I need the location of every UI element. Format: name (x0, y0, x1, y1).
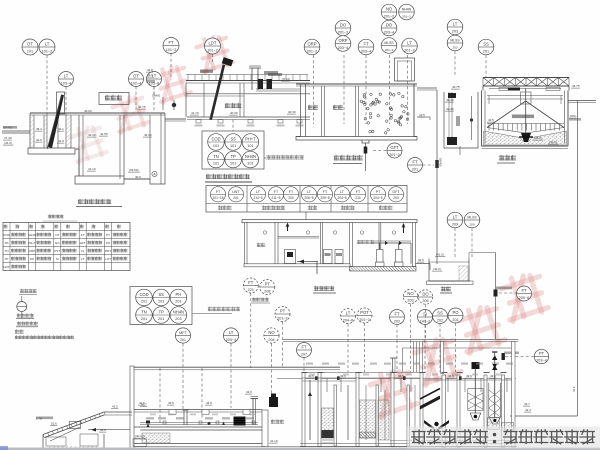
svg-text:205~6: 205~6 (519, 296, 530, 300)
svg-text:NH4N: NH4N (28, 233, 36, 237)
svg-text:201~16: 201~16 (212, 196, 223, 200)
handrail post (229, 75, 231, 81)
svg-text:WFT: WFT (105, 249, 112, 253)
handrail post (201, 75, 203, 81)
wire (283, 341, 519, 343)
instrument signal line (65, 87, 67, 116)
svg-text:206~5: 206~5 (304, 196, 313, 200)
sludge pipe down (365, 143, 367, 171)
instrument bubble DO 201~2 (335, 20, 351, 36)
svg-text:PO: PO (106, 241, 111, 245)
screw conveyor dark band (209, 64, 225, 120)
wire (296, 85, 417, 87)
instrument bubble LDT 101~2 (205, 38, 221, 54)
basin floor 2 (124, 178, 150, 180)
instrument bubble PT 208 (260, 280, 275, 295)
svg-text:NO: NO (407, 291, 414, 296)
handrail post (187, 75, 189, 81)
box (398, 61, 412, 81)
svg-text:SS: SS (158, 292, 164, 297)
svg-text:40.30: 40.30 (288, 110, 296, 114)
leader from gallery (232, 120, 234, 132)
instrument signal line (499, 292, 518, 294)
tank top inner (30, 114, 165, 116)
instrument signal line (153, 87, 155, 96)
svg-text:PT: PT (376, 190, 381, 194)
wire (564, 91, 566, 144)
label 加药NaClO (504, 352, 519, 355)
instrument bubble MFT 201 (175, 328, 190, 343)
legend table (3, 223, 130, 271)
wire (501, 372, 507, 374)
instrument bubble SI 141~2 (418, 310, 433, 325)
instrument bubble LT 103~4 (59, 72, 74, 87)
instrument bubble LT 201~2 (402, 38, 418, 54)
tank base slab (427, 281, 474, 285)
svg-text:208: 208 (264, 289, 270, 293)
table bottom label (218, 206, 231, 210)
wire (302, 380, 356, 382)
wire (430, 280, 470, 282)
svg-text:FT: FT (394, 312, 400, 317)
svg-text:FT: FT (539, 351, 545, 356)
wire (468, 253, 470, 259)
inclined screen (dark) (48, 95, 64, 148)
svg-text:203~4: 203~4 (384, 30, 395, 34)
wire (183, 410, 185, 425)
svg-text:46.75: 46.75 (138, 105, 146, 109)
table col divider (246, 186, 248, 213)
svg-text:201: 201 (158, 317, 164, 321)
table bottom label (262, 206, 285, 210)
svg-text:40.6: 40.6 (135, 175, 141, 179)
instrument bubble GFT 201~2 (387, 143, 402, 158)
box (46, 437, 66, 446)
svg-text:45.4: 45.4 (36, 127, 42, 131)
instrument signal line (343, 55, 345, 124)
handrail post (278, 75, 280, 81)
instrument signal line (182, 344, 184, 411)
box (499, 88, 508, 91)
instrument signal line (423, 164, 435, 166)
instrument signal line (364, 323, 366, 372)
wire (347, 385, 349, 440)
svg-text:52.6: 52.6 (100, 428, 106, 432)
svg-text:LT: LT (453, 22, 458, 27)
wire (104, 414, 132, 416)
title text (206, 174, 250, 179)
svg-text:LDT: LDT (209, 41, 217, 46)
label 就地仪表 (17, 314, 34, 318)
wire (140, 422, 258, 424)
instrument bubble LT 204~6 (341, 309, 356, 324)
screen hatch (47, 94, 62, 149)
svg-text:203: 203 (452, 29, 458, 33)
svg-text:46.75: 46.75 (572, 84, 580, 88)
instrument signal line (250, 293, 252, 368)
sludge stipple zone (484, 131, 567, 145)
wire (560, 96, 562, 105)
wire (488, 96, 490, 105)
rake teeth (489, 124, 560, 131)
handrail post (236, 75, 238, 81)
instrument bubble FT 207 (297, 343, 312, 358)
wire (251, 302, 270, 304)
svg-text:42.5: 42.5 (139, 401, 145, 405)
basin floor (187, 116, 310, 118)
wire (268, 446, 302, 448)
svg-text:42.5: 42.5 (419, 113, 425, 117)
wire (16, 326, 38, 328)
svg-text:CL: CL (81, 249, 85, 253)
riser (480, 378, 482, 392)
instrument signal line (347, 324, 349, 373)
wire (297, 261, 318, 263)
wire (249, 67, 261, 69)
instrument bubble MLSS 201~2 (381, 38, 397, 54)
handrail post (299, 75, 301, 81)
box (70, 422, 81, 429)
stippled column cell (378, 400, 389, 440)
wire (484, 91, 486, 144)
svg-text:203: 203 (452, 45, 457, 49)
wire (356, 372, 362, 374)
svg-text:PH+T: PH+T (245, 136, 256, 141)
wire (278, 236, 319, 238)
svg-text:47.10: 47.10 (282, 77, 290, 81)
svg-text:43.5: 43.5 (206, 401, 212, 405)
svg-text:204: 204 (268, 338, 274, 342)
svg-text:203~4: 203~4 (338, 46, 349, 50)
tank wall (429, 259, 469, 282)
table bottom label (308, 206, 317, 210)
svg-text:43.9: 43.9 (572, 386, 576, 392)
wire (417, 87, 437, 89)
svg-text:FT: FT (81, 233, 85, 237)
label 提升泵房 (264, 71, 278, 74)
wire (487, 98, 563, 100)
wire (392, 358, 394, 373)
instrument signal line (159, 368, 161, 425)
box (335, 250, 343, 264)
instrument signal line (439, 324, 441, 373)
svg-text:200: 200 (288, 196, 294, 200)
wire (567, 91, 569, 147)
svg-text:DO: DO (30, 257, 35, 261)
box (468, 389, 483, 411)
svg-text:SS: SS (230, 136, 236, 141)
wire (487, 128, 526, 134)
wire (410, 243, 412, 264)
walls of advanced treatment tanks (302, 373, 305, 447)
svg-text:DO: DO (422, 292, 429, 297)
lamella plates dark (420, 396, 440, 410)
svg-text:43.7: 43.7 (524, 402, 530, 406)
svg-text:210: 210 (355, 196, 361, 200)
instrument bubble DO 203~4 (381, 20, 397, 36)
instrument bubble DO 205 (418, 290, 432, 304)
wire (134, 409, 262, 411)
svg-text:(DN): (DN) (570, 114, 576, 118)
svg-text:203~4: 203~4 (536, 359, 547, 363)
wire (140, 424, 258, 426)
grit tank wall (57, 115, 59, 148)
tank top edge (30, 112, 165, 114)
wire (300, 443, 517, 445)
wire (305, 84, 307, 137)
wire (165, 120, 186, 122)
wire (88, 429, 130, 431)
svg-text:42.5: 42.5 (418, 258, 424, 262)
svg-text:NO: NO (268, 330, 275, 335)
label 厌氧 (308, 105, 318, 110)
AAO floor (296, 136, 417, 138)
center shaft (525, 88, 527, 136)
ramp rungs (43, 412, 105, 438)
svg-text:101~2: 101~2 (42, 50, 53, 54)
instrument bubble SS 202 (433, 309, 448, 324)
svg-text:SI: SI (423, 312, 427, 317)
wire (482, 86, 484, 91)
label 中心传动刮泥机 (512, 115, 534, 119)
svg-text:LT: LT (81, 257, 84, 261)
instrument signal line (135, 87, 137, 114)
svg-text:42.4: 42.4 (525, 408, 531, 412)
riser (464, 378, 466, 392)
svg-text:41.10: 41.10 (270, 439, 278, 443)
instrument bubble MLSS 209 (464, 212, 480, 228)
wire (186, 93, 310, 95)
svg-text:205: 205 (422, 299, 428, 303)
svg-text:201~2: 201~2 (359, 318, 370, 322)
svg-text:46.75: 46.75 (452, 85, 460, 89)
svg-text:43.5: 43.5 (168, 401, 174, 405)
wire (140, 429, 262, 431)
title underline (440, 292, 452, 294)
outline (362, 140, 369, 143)
svg-text:TP: TP (5, 257, 9, 261)
svg-text:SS: SS (437, 311, 443, 316)
feed channel wall (444, 92, 478, 148)
svg-text:203: 203 (407, 299, 413, 303)
svg-text:TN: TN (5, 249, 9, 253)
svg-text:LT: LT (45, 42, 50, 47)
wire (186, 80, 310, 82)
instrument bubble SS 201 (478, 39, 494, 55)
svg-text:LT: LT (407, 41, 412, 46)
handrail post (208, 75, 210, 81)
wall (119, 115, 121, 179)
wire (422, 342, 424, 373)
title underline (205, 181, 252, 183)
box (324, 250, 333, 264)
wire (471, 96, 473, 140)
wall (82, 115, 84, 176)
svg-text:NH4N: NH4N (402, 8, 412, 12)
label 回流泵房 vertical (456, 116, 460, 126)
svg-text:52.6: 52.6 (51, 422, 57, 426)
instrument signal line (410, 304, 412, 372)
label 提升泵 (268, 73, 282, 76)
wire (305, 212, 307, 220)
svg-text:102~4: 102~4 (131, 81, 142, 85)
svg-text:DO: DO (386, 23, 393, 28)
box (521, 92, 532, 104)
box (395, 58, 415, 81)
grit tank wall (33, 115, 35, 148)
leader (264, 157, 266, 159)
svg-text:ORP: ORP (338, 38, 347, 43)
wire (489, 88, 561, 90)
wire (481, 91, 483, 147)
wire (283, 338, 519, 340)
wire (133, 366, 340, 368)
watermark 1 (top-left, light red diagonal) (68, 123, 109, 164)
svg-text:221: 221 (248, 288, 254, 292)
wire (257, 68, 259, 90)
legend table title (48, 215, 63, 219)
svg-text:(38.6): (38.6) (534, 136, 542, 140)
wire (394, 358, 396, 373)
wire (487, 95, 563, 97)
svg-text:OT: OT (55, 233, 59, 237)
svg-text:SS: SS (4, 241, 8, 245)
title underline (497, 162, 515, 164)
svg-text:42.5: 42.5 (488, 118, 494, 122)
svg-text:SI: SI (56, 257, 59, 261)
svg-text:204~6: 204~6 (343, 318, 354, 322)
instrument bubble LT 203 (447, 19, 463, 35)
small valves on pipes (315, 376, 318, 380)
svg-text:201: 201 (141, 300, 147, 304)
instrument bubble ORP 203~4 (335, 36, 351, 52)
box (546, 88, 560, 91)
svg-text:201~2: 201~2 (402, 14, 411, 18)
bottom scraper dark V (424, 420, 449, 432)
wire (251, 68, 253, 90)
wire (495, 253, 497, 340)
svg-text:PH+T: PH+T (28, 241, 36, 245)
svg-text:41.70: 41.70 (191, 111, 199, 115)
table col divider (330, 186, 332, 213)
svg-text:FT: FT (363, 42, 369, 47)
instrument signal line (373, 150, 387, 152)
title underline (76, 206, 122, 208)
wire (134, 426, 262, 428)
svg-text:(40.0): (40.0) (549, 140, 557, 144)
wire (568, 100, 596, 102)
wire (403, 347, 513, 349)
svg-text:TN: TN (141, 309, 147, 314)
filter bed bottom hatch (360, 432, 376, 438)
wire (243, 83, 245, 117)
instrument bubble MLSS 203 (447, 35, 463, 51)
svg-text:ORP: ORP (307, 42, 316, 47)
instrument bubble FT 203~4 (358, 39, 374, 55)
svg-text:141~2: 141~2 (420, 319, 431, 323)
svg-text:103~4: 103~4 (61, 81, 72, 85)
svg-text:203: 203 (175, 317, 181, 321)
wire (457, 372, 463, 374)
instrument bubble OT 102~4 (129, 72, 144, 87)
instrument signal line (365, 55, 367, 124)
instrument bubble FT 101~2 (163, 38, 179, 54)
svg-text:201~2: 201~2 (307, 49, 318, 53)
center sludge hopper dark (521, 133, 531, 142)
instrument bubble FT 205~6 (517, 286, 532, 301)
wire (416, 263, 431, 265)
svg-text:DN400: DN400 (439, 158, 443, 167)
svg-text:101~2: 101~2 (207, 49, 218, 53)
svg-text:201: 201 (180, 338, 186, 342)
handrail post (250, 75, 252, 81)
svg-text:42.9: 42.9 (36, 138, 42, 142)
svg-text:PT: PT (106, 233, 110, 237)
box (133, 439, 147, 447)
small pump left (147, 424, 150, 428)
svg-text:201: 201 (141, 317, 147, 321)
wire (185, 83, 187, 117)
instrument signal line (485, 55, 487, 77)
aeration bubbles dots (360, 92, 409, 134)
tank outlet pipe (469, 252, 496, 254)
caption backdrop (407, 427, 600, 449)
wire (162, 97, 164, 110)
vent arrows (287, 224, 289, 231)
wire (448, 92, 450, 145)
truss top chord (483, 77, 569, 79)
wire (419, 342, 421, 373)
wire (183, 409, 189, 411)
wire (384, 390, 386, 440)
svg-text:FT: FT (412, 160, 418, 165)
wire (252, 399, 254, 426)
svg-text:PST: PST (54, 249, 60, 253)
svg-text:101~2: 101~2 (166, 48, 177, 52)
svg-text:PH: PH (176, 292, 182, 297)
wire (417, 89, 437, 91)
blowers (376, 262, 385, 267)
basin floor (79, 175, 124, 177)
wire (442, 372, 448, 374)
title underline (333, 163, 362, 165)
wire (296, 83, 417, 85)
instrument signal line (389, 55, 391, 124)
svg-text:COD: COD (139, 292, 148, 297)
wire (133, 369, 340, 371)
grit tank wall (70, 115, 72, 148)
clarifier bottom (482, 145, 569, 147)
wire (277, 378, 516, 380)
svg-text:POT: POT (360, 310, 369, 315)
instrument signal line (303, 358, 305, 396)
wire (390, 357, 397, 359)
svg-text:LWT: LWT (232, 190, 240, 194)
svg-text:101: 101 (213, 162, 219, 166)
wire (186, 82, 310, 84)
wire (373, 240, 411, 242)
svg-text:209: 209 (452, 222, 458, 226)
wire (302, 372, 420, 374)
note line 1 (15, 336, 74, 339)
wire (318, 372, 324, 374)
svg-text:NO: NO (386, 7, 393, 12)
wire (420, 372, 426, 374)
svg-text:42.6: 42.6 (466, 374, 472, 378)
wire (391, 372, 397, 374)
labels along gallery (146, 417, 154, 419)
svg-text:44.1: 44.1 (58, 127, 64, 131)
